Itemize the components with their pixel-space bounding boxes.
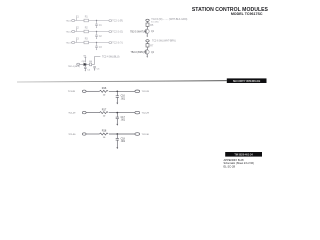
svg-text:C4: C4 [87,69,91,71]
svg-text:E4: E4 [84,55,87,57]
connector TC2-29 [135,111,140,114]
wire emitter Q2 [147,54,148,58]
svg-text:R18: R18 [102,130,107,133]
svg-text:TC2-28: TC2-28 [142,91,150,93]
terminal E4 tick [84,57,86,62]
capacitor C16 [116,91,119,104]
svg-text:TC1-29: TC1-29 [68,113,76,115]
svg-text:C1: C1 [99,25,103,27]
connector TC1-30 [82,133,86,135]
svg-text:R1: R1 [85,17,89,19]
resistor R7 [146,44,149,47]
wire collector Q2 [147,42,149,50]
labels upper rows [66,16,124,49]
svg-text:TB2-2: TB2-2 [66,31,73,33]
resistor R16 [100,90,109,92]
node junctions upper rows [96,20,97,43]
svg-text:Q2: Q2 [151,52,155,54]
connector TC2-6 [146,40,149,42]
node diode row [85,64,86,65]
figure reference bar [225,152,262,157]
svg-text:R7: R7 [150,46,154,48]
wire row3 [75,42,109,44]
svg-text:C2: C2 [99,36,103,38]
node B3 [116,133,118,135]
wire base Q1 [144,30,146,32]
wire row B2 [86,112,135,114]
net label box SECURITY INTERFACE [227,78,267,83]
sheet title [192,7,269,16]
capacitor C5 [93,67,96,71]
labels row B1 [68,87,150,100]
resistor R3 [84,41,89,44]
svg-text:R2: R2 [85,28,89,30]
labels diode row [68,55,120,71]
capacitor C4 [84,64,87,71]
node B2 [116,112,118,114]
wire row B3 [86,133,135,135]
svg-text:TC2-30: TC2-30 [142,134,150,136]
resistor R4 [90,63,92,66]
svg-text:CR1: CR1 [82,61,87,63]
svg-text:EL-2C-28: EL-2C-28 [224,164,236,168]
svg-text:TC2-2 (G): TC2-2 (G) [112,30,123,33]
separator rail [17,81,227,82]
svg-text:E2: E2 [76,27,80,29]
capacitor C3 [95,43,98,51]
resistor R17 [100,112,109,114]
svg-text:C5: C5 [97,69,101,71]
svg-text:Q1: Q1 [151,31,155,33]
wire diode row [80,57,101,65]
labels Q1 stage [130,18,187,33]
wire base Q2 [144,51,146,53]
terminal E1 tick [76,18,78,43]
svg-text:C18: C18 [121,138,126,140]
svg-text:MODEL TC9617SC: MODEL TC9617SC [231,12,263,16]
resistor R5 [146,23,149,26]
svg-text:.001: .001 [121,120,126,122]
connector TB2-4 [77,63,80,65]
svg-text:E3: E3 [76,38,80,40]
wire row1 [75,20,109,22]
svg-text:TC2-1 (R): TC2-1 (R) [112,19,123,22]
svg-text:TM 5820-401-34: TM 5820-401-34 [234,154,253,157]
wire emitter Q1 [147,34,148,38]
svg-text:R16: R16 [102,87,107,90]
connector TC2-5 [146,19,149,21]
svg-text:TC2-3 (Y): TC2-3 (Y) [112,41,123,44]
svg-text:TB2-3: TB2-3 [66,42,73,44]
svg-text:C17: C17 [121,117,126,119]
transistor Q2 [145,50,150,55]
wire row2 [75,31,109,33]
node B1 [116,90,118,92]
svg-text:R3: R3 [85,39,89,41]
transistor Q1 [145,29,150,34]
connector TC1-29 [82,111,86,113]
capacitor C17 [116,113,119,126]
diode CR1 [84,63,86,66]
svg-text:TC2-6 (W) (WHT-BRN): TC2-6 (W) (WHT-BRN) [152,41,176,43]
svg-text:R5: R5 [150,25,154,27]
svg-text:.001: .001 [121,141,126,143]
svg-text:TB2-6 (BRN): TB2-6 (BRN) [131,52,145,54]
svg-text:E-5 (W): E-5 (W) [151,21,158,23]
svg-text:TB2-1: TB2-1 [66,20,73,22]
svg-text:TC1-28: TC1-28 [68,91,76,93]
connector TC2-30 [135,133,140,136]
wire collector Q1 [147,22,149,30]
resistor R18 [100,133,109,135]
figure caption [224,158,254,169]
svg-text:TC2-29: TC2-29 [142,113,150,115]
svg-text:R4: R4 [89,61,93,63]
capacitor C1 [95,21,98,29]
svg-text:TB2-5 (WHT): TB2-5 (WHT) [130,31,144,33]
svg-text:E1: E1 [76,16,80,18]
wire row B1 [86,90,135,92]
svg-text:.001: .001 [121,98,126,100]
resistor R1 [84,19,89,44]
resistor R2 [84,30,89,33]
svg-text:SECURITY INTERFACE: SECURITY INTERFACE [233,80,261,83]
connector TC2-28 [135,90,140,93]
capacitor C18 [116,134,119,149]
labels row B3 [68,130,149,143]
svg-text:C16: C16 [121,96,126,98]
svg-text:TC2-4 (W) (BLU): TC2-4 (W) (BLU) [102,57,120,59]
connector TC1-28 [82,90,86,92]
connector P1-1 [72,19,112,43]
svg-text:10: 10 [103,94,106,96]
svg-text:C3: C3 [99,47,103,49]
svg-text:10: 10 [103,116,106,118]
svg-text:10: 10 [103,137,106,139]
capacitor C2 [95,32,98,40]
svg-text:TB2-4 (BLK): TB2-4 (BLK) [68,66,80,68]
labels row B2 [68,108,149,121]
svg-text:R17: R17 [102,108,107,111]
labels Q2 stage [131,41,176,54]
svg-text:TC1-30: TC1-30 [68,134,76,136]
